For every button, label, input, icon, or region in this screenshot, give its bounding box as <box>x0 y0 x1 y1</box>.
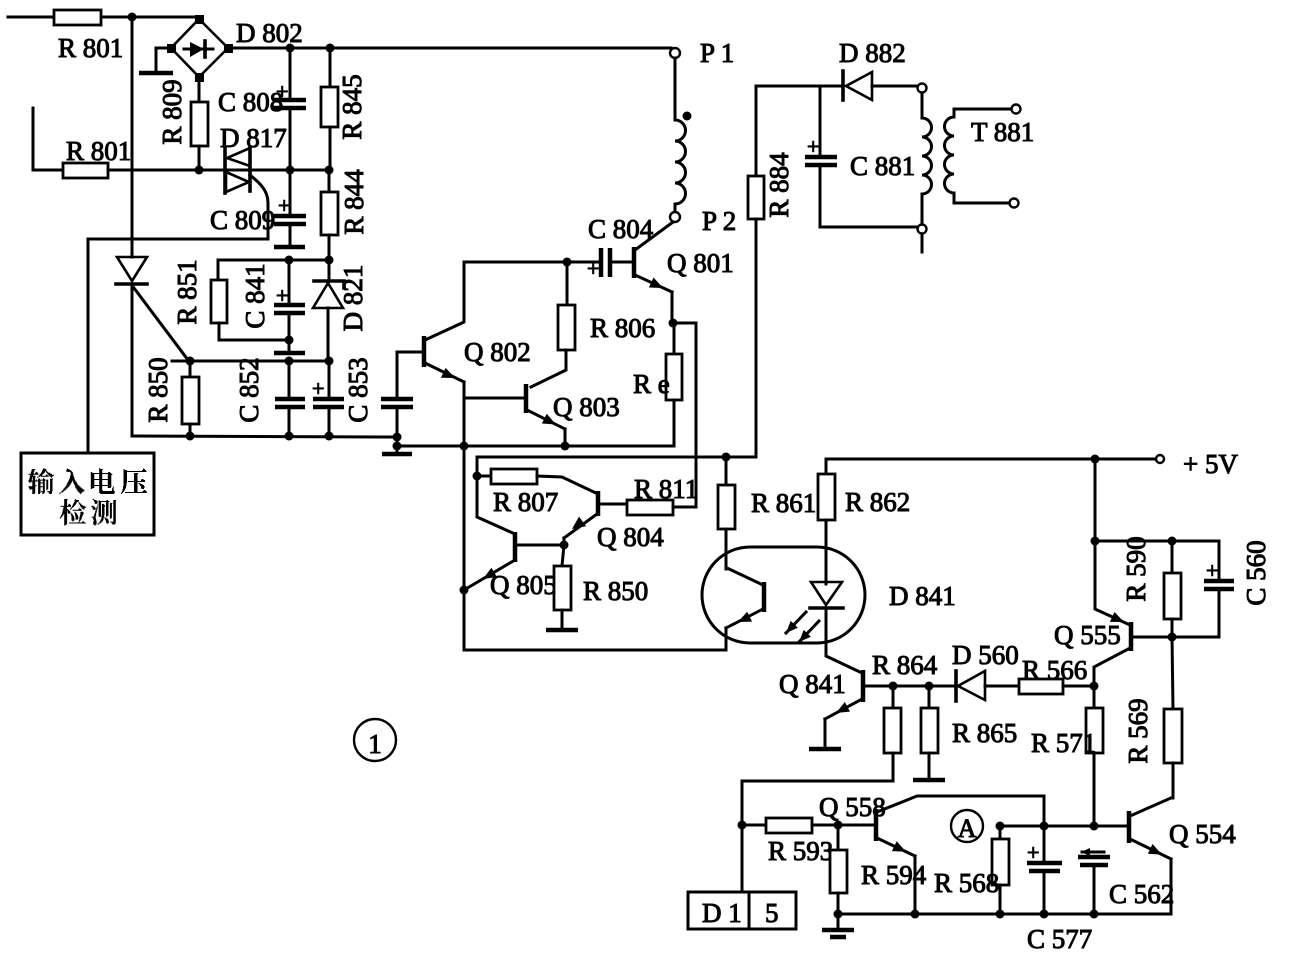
svg-text:R 861: R 861 <box>751 488 816 518</box>
svg-text:R 844: R 844 <box>339 169 369 235</box>
svg-text:D 817: D 817 <box>220 123 287 153</box>
transistor Q805 <box>464 476 564 590</box>
resistor R850 (sense divider) <box>182 361 199 436</box>
svg-text:R 801: R 801 <box>58 33 123 63</box>
transistor Q801 <box>634 222 673 323</box>
transistor Q554 <box>1129 798 1171 914</box>
svg-text:C 562: C 562 <box>1109 879 1174 909</box>
resistor R844 <box>321 170 338 261</box>
svg-text:R 862: R 862 <box>845 487 910 517</box>
svg-text:+: + <box>807 134 819 159</box>
svg-text:C 808: C 808 <box>218 87 283 117</box>
wire: B+ rail top <box>228 47 671 50</box>
svg-text:R 801: R 801 <box>66 136 131 166</box>
diode (sense zener) <box>116 257 147 284</box>
svg-text:+ 5V: + 5V <box>1183 449 1238 479</box>
wire: Q801 emitter node <box>669 319 678 328</box>
resistor R566 <box>1019 679 1094 694</box>
svg-text:R 865: R 865 <box>952 718 1017 748</box>
resistor R569 <box>1164 637 1182 798</box>
resistor R845 <box>321 48 338 170</box>
svg-text:+: + <box>312 376 324 401</box>
wire: Q803 base <box>464 397 524 400</box>
wire: Q802 collector net <box>464 261 600 264</box>
svg-text:+: + <box>276 283 288 308</box>
capacitor C852 <box>275 361 305 436</box>
svg-text:D 560: D 560 <box>952 640 1019 670</box>
wire: +5V rail <box>826 458 1156 461</box>
wire: D817 to sense box net <box>88 175 268 453</box>
svg-text:R 590: R 590 <box>1121 536 1151 601</box>
wire: Q802 emitter vertical <box>463 382 466 650</box>
ground (R850 bias) <box>546 628 578 633</box>
wire: input sense vertical <box>131 17 134 257</box>
ground (bridge AC2) <box>139 71 173 76</box>
resistor R861 <box>718 453 735 570</box>
svg-text:R 806: R 806 <box>590 313 655 343</box>
input sense box <box>21 453 154 535</box>
svg-text:1: 1 <box>368 729 382 759</box>
node Q805 emitter <box>460 586 469 595</box>
svg-text:5: 5 <box>765 898 779 928</box>
wire: lower input stub <box>33 108 63 170</box>
resistor R801 (top) <box>54 10 101 25</box>
svg-text:C 560: C 560 <box>1241 540 1271 605</box>
svg-text:C 804: C 804 <box>588 214 654 244</box>
resistor R865 <box>921 686 938 777</box>
wire: bridge AC2 stub <box>156 48 171 71</box>
transistor Q803 <box>526 384 565 446</box>
capacitor C841 <box>274 260 305 340</box>
node R864 <box>889 682 898 691</box>
transistor Q558 <box>876 796 1044 914</box>
symbol circled 1 <box>354 719 396 761</box>
resistor R590 <box>1164 541 1181 637</box>
svg-text:C 841: C 841 <box>240 263 270 328</box>
wire: net 260 <box>218 259 330 262</box>
phase dot <box>683 112 692 121</box>
transistor Q804 <box>564 491 627 545</box>
svg-text:R 593: R 593 <box>768 836 833 866</box>
wire: net 361 <box>172 360 329 363</box>
transformer T881 primary <box>918 84 932 253</box>
node Q555 base <box>1168 633 1177 642</box>
capacitor C808 <box>273 48 306 170</box>
wire: ground rail left <box>132 436 397 437</box>
svg-text:D 1: D 1 <box>702 898 742 928</box>
svg-text:P 1: P 1 <box>700 38 734 68</box>
svg-text:Q 555: Q 555 <box>1054 620 1121 650</box>
wire: zener to R850 node diagonal <box>134 288 188 360</box>
optocoupler phototransistor <box>726 568 764 628</box>
svg-text:R 850: R 850 <box>583 576 648 606</box>
node R594 <box>834 821 843 830</box>
svg-text:R 594: R 594 <box>861 860 927 890</box>
transformer T881 secondary <box>945 105 1021 208</box>
resistor R850 (bias) <box>554 545 571 628</box>
svg-text:R e: R e <box>633 369 670 399</box>
svg-text:D 821: D 821 <box>338 265 368 332</box>
transistor Q841 <box>825 670 956 747</box>
svg-text:Q 803: Q 803 <box>553 392 620 422</box>
resistor R864 <box>742 686 901 825</box>
capacitor C809 <box>274 170 306 245</box>
wire: Q555 upper node <box>1091 537 1100 546</box>
svg-text:R 864: R 864 <box>872 650 938 680</box>
resistor R851 <box>211 260 227 340</box>
resistor R884 <box>748 86 764 457</box>
ground (main) <box>382 437 412 454</box>
svg-text:R 568: R 568 <box>934 868 999 898</box>
optocoupler LED <box>786 582 862 673</box>
terminal P2 <box>670 212 680 222</box>
svg-text:R 569: R 569 <box>1123 698 1153 763</box>
resistor R801 (lower) <box>63 163 108 178</box>
svg-text:Q 804: Q 804 <box>597 522 664 552</box>
svg-text:R 850: R 850 <box>143 357 173 422</box>
svg-text:Q 801: Q 801 <box>667 248 734 278</box>
svg-text:A: A <box>958 814 977 843</box>
wire: bottom loop to opto emitter <box>464 628 726 650</box>
resistor R594 <box>830 825 847 914</box>
node R807 left <box>473 472 482 481</box>
wire: snubber top <box>756 85 842 88</box>
resistor Re <box>666 323 682 446</box>
svg-text:C 809: C 809 <box>210 205 275 235</box>
resistor R568 <box>992 826 1009 914</box>
svg-text:D 802: D 802 <box>236 18 303 48</box>
transistor Q802 <box>397 336 464 382</box>
capacitor C562 <box>1078 848 1110 914</box>
svg-text:C 881: C 881 <box>850 151 915 181</box>
diac D817 <box>225 147 250 193</box>
svg-text:D 882: D 882 <box>839 38 906 68</box>
wire: Q554 base net <box>1000 825 1128 828</box>
svg-text:+: + <box>1206 558 1218 583</box>
wire: net 170 <box>108 169 329 172</box>
diode D560 <box>956 671 1019 701</box>
wire: AC input top <box>8 16 199 19</box>
resistor R806 <box>531 262 575 387</box>
wire: bottom rail <box>838 913 1171 916</box>
ground (R865) <box>913 778 945 783</box>
capacitor (electrolytic, net361) <box>312 361 344 436</box>
resistor R811 <box>627 500 696 515</box>
capacitor C560 <box>1172 541 1234 637</box>
svg-text:+: + <box>278 193 290 218</box>
capacitor C881 <box>805 86 918 227</box>
optocoupler D841 body <box>702 547 865 643</box>
resistor R807 <box>477 469 598 494</box>
svg-text:T 881: T 881 <box>971 117 1034 147</box>
svg-text:Q 802: Q 802 <box>464 337 531 367</box>
svg-text:P 2: P 2 <box>702 206 736 236</box>
wire: net 340 <box>219 339 289 342</box>
transistor Q555 <box>1094 459 1172 686</box>
resistor R593 <box>742 818 875 833</box>
wire: R864 return node <box>738 821 747 830</box>
node R865 <box>925 682 934 691</box>
svg-text:R 566: R 566 <box>1022 655 1087 685</box>
ground (C841) <box>274 340 305 353</box>
svg-text:R 845: R 845 <box>337 74 367 139</box>
capacitor C577 <box>1027 826 1062 914</box>
node R566/R571 <box>1090 682 1099 691</box>
svg-text:C 577: C 577 <box>1027 924 1092 954</box>
wire: emitter rail <box>397 445 674 448</box>
terminal P1 <box>670 48 680 58</box>
resistor R571 <box>1086 686 1103 826</box>
svg-text:Q 558: Q 558 <box>819 792 886 822</box>
primary winding <box>675 58 686 212</box>
resistor R809 <box>191 102 208 146</box>
svg-text:Q 554: Q 554 <box>1169 819 1236 849</box>
svg-text:R 884: R 884 <box>764 152 794 218</box>
node Q804/Q805 <box>560 541 569 550</box>
ground (C809) <box>274 245 305 250</box>
svg-text:Q 805: Q 805 <box>490 570 557 600</box>
diode D882 <box>843 71 918 100</box>
connector D1-5 box <box>688 825 796 929</box>
svg-text:D 841: D 841 <box>889 581 956 611</box>
svg-text:Q 841: Q 841 <box>779 669 846 699</box>
svg-text:R 809: R 809 <box>157 79 187 144</box>
capacitor C853 <box>381 352 413 437</box>
svg-text:R 807: R 807 <box>493 487 558 517</box>
bridge rectifier D802 <box>167 15 233 82</box>
svg-text:+: + <box>1027 840 1039 865</box>
node: input junction <box>128 13 137 22</box>
svg-text:+: + <box>587 256 599 281</box>
resistor R862 <box>818 459 835 584</box>
zener D821 <box>313 261 344 361</box>
symbol circled A <box>951 810 983 843</box>
wire: feedback line 457 <box>477 457 756 476</box>
ground (Q841) <box>809 747 841 752</box>
svg-text:C 852: C 852 <box>234 357 264 422</box>
svg-text:R 851: R 851 <box>172 259 202 324</box>
wire: bridge minus to R809 <box>198 77 201 102</box>
svg-text:R 571: R 571 <box>1031 728 1096 758</box>
capacitor C804 <box>587 248 632 281</box>
svg-text:R 811: R 811 <box>634 474 698 504</box>
svg-text:C 853: C 853 <box>343 357 373 422</box>
ground (R594) <box>822 914 854 937</box>
